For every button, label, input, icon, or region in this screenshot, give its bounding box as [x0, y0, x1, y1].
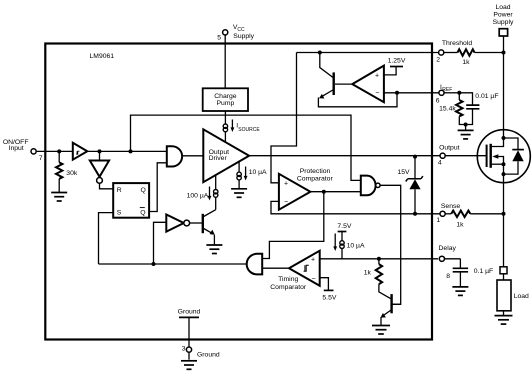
- svg-text:Output: Output: [439, 144, 460, 151]
- svg-text:30k: 30k: [66, 170, 78, 177]
- svg-text:0.1 µF: 0.1 µF: [474, 268, 493, 275]
- transistor Q3: [390, 294, 392, 313]
- current source 100uA: [215, 175, 217, 190]
- svg-text:5: 5: [217, 35, 221, 42]
- svg-text:S: S: [117, 210, 122, 217]
- svg-text:Comparator: Comparator: [297, 176, 334, 183]
- svg-text:4: 4: [438, 160, 442, 167]
- svg-text:Pump: Pump: [217, 100, 235, 107]
- svg-text:1k: 1k: [456, 222, 464, 229]
- pin 3 terminal: [186, 347, 191, 352]
- wire mosfet source down: [503, 164, 505, 174]
- svg-text:LM9061: LM9061: [90, 53, 115, 60]
- arrow 100uA: [209, 187, 211, 197]
- pin 7 ON/OFF Input terminal: [31, 149, 36, 154]
- svg-text:Load: Load: [514, 293, 529, 300]
- resistor 15.4k: [458, 93, 460, 100]
- wire inverter to Q1 base: [190, 222, 202, 224]
- svg-text:Input: Input: [9, 145, 24, 152]
- wire timing minus to 5.5V: [320, 278, 329, 291]
- svg-text:Ground: Ground: [178, 308, 201, 315]
- wire 1k to Q3 base: [379, 284, 391, 299]
- wire pin7 to schmitt buffer: [36, 150, 73, 152]
- wire tap to inverter U3: [154, 222, 167, 264]
- node op-amp minus junction: [395, 91, 399, 95]
- wire 30k to ground: [58, 179, 60, 193]
- arrow 10uA timing: [334, 234, 336, 248]
- latch RS flip-flop: [113, 183, 149, 218]
- comparator timing: [289, 251, 320, 286]
- svg-text:Threshold: Threshold: [442, 40, 472, 47]
- transistor Q1: [202, 214, 204, 233]
- ground under Q3: [372, 326, 390, 335]
- IC outline box LM9061: [45, 44, 432, 340]
- svg-text:+: +: [311, 257, 315, 264]
- svg-text:1: 1: [436, 217, 440, 224]
- schmitt buffer A1: [73, 143, 88, 160]
- wire ON/OFF signal rail to NAND gate: [131, 115, 361, 180]
- wire protection output to NAND: [310, 191, 360, 193]
- svg-text:7.5V: 7.5V: [337, 223, 351, 230]
- transistor Q2 PNP: [333, 72, 335, 95]
- node bottom rail tap: [152, 262, 156, 266]
- capacitor 0.1uF: [445, 259, 461, 269]
- svg-text:Ground: Ground: [197, 351, 220, 358]
- node mosfet source stub: [502, 162, 506, 166]
- svg-text:+: +: [284, 181, 288, 188]
- current source 10uA (driver): [238, 162, 240, 173]
- node rail tap: [129, 149, 133, 153]
- svg-text:1k: 1k: [462, 59, 470, 66]
- svg-text:10 µA: 10 µA: [347, 243, 365, 250]
- pin 1 Sense terminal: [440, 211, 445, 216]
- ground under 10uA: [231, 189, 247, 198]
- svg-text:7: 7: [39, 155, 43, 162]
- node iref junction: [457, 91, 461, 95]
- wire protection output to timing AND: [262, 192, 324, 259]
- capacitor 0.01uF: [459, 93, 472, 105]
- svg-text:Q: Q: [141, 187, 146, 194]
- svg-text:−: −: [311, 276, 315, 283]
- ground under pin 3: [181, 361, 197, 370]
- svg-text:1.25V: 1.25V: [388, 57, 406, 64]
- arrow Isource: [231, 120, 233, 129]
- node delay 1k junction: [377, 257, 381, 261]
- wire S input from bottom rail: [99, 213, 114, 264]
- svg-text:−: −: [284, 199, 288, 206]
- svg-text:6: 6: [436, 98, 440, 105]
- node mosfet source: [502, 172, 506, 176]
- svg-text:SOURCE: SOURCE: [238, 127, 260, 133]
- inverter U3: [166, 215, 184, 232]
- wire driver output to pin 4: [249, 155, 440, 157]
- svg-text:CC: CC: [237, 27, 245, 33]
- svg-text:Charge: Charge: [214, 93, 237, 100]
- and gate G3 (timing, points left): [247, 254, 263, 275]
- pin 5 VCC terminal: [223, 30, 228, 35]
- charge pump block: [203, 88, 248, 111]
- and gate G1: [167, 146, 182, 166]
- wire pin 4 to gate: [445, 155, 486, 157]
- wire VCC to charge pump: [224, 35, 226, 88]
- svg-text:0.01 µF: 0.01 µF: [475, 93, 498, 100]
- node 30k tap: [57, 149, 61, 153]
- node inverter tap: [98, 149, 102, 153]
- svg-text:Supply: Supply: [233, 33, 254, 40]
- wire schmitt buffer output to AND gate: [87, 150, 167, 152]
- ground under Q1: [206, 245, 222, 254]
- svg-text:5.5V: 5.5V: [322, 294, 336, 301]
- power MOSFET with body diode: [477, 130, 530, 183]
- node load supply junction: [502, 51, 506, 55]
- svg-text:2: 2: [436, 57, 440, 64]
- terminal square load top: [500, 267, 507, 274]
- resistor 1k threshold: [444, 52, 458, 54]
- wire load supply to MOSFET drain: [503, 36, 505, 138]
- wire op-amp minus to pin 6: [384, 92, 439, 94]
- svg-text:Delay: Delay: [439, 245, 457, 252]
- current source ISOURCE: [223, 124, 227, 132]
- op-amp output driver: [203, 129, 249, 182]
- svg-text:R: R: [117, 187, 122, 194]
- node mosfet drain: [502, 136, 506, 140]
- svg-text:Load: Load: [495, 4, 510, 11]
- svg-text:Timing: Timing: [278, 276, 298, 283]
- wire threshold to protection comparator +: [271, 53, 297, 183]
- svg-text:−: −: [375, 90, 379, 97]
- resistor 1k (delay): [378, 259, 380, 264]
- nand gate G2: [361, 176, 376, 196]
- node cap ground junction: [464, 123, 468, 127]
- op-amp U4 1.25V reference: [352, 66, 384, 103]
- threshold rail: [297, 52, 439, 54]
- arrow 10uA: [245, 167, 247, 177]
- node sense load junction: [502, 212, 506, 216]
- ground under 15.4k: [458, 130, 474, 139]
- svg-text:10 µA: 10 µA: [249, 169, 267, 176]
- node protection output: [322, 190, 326, 194]
- pin 4 Output terminal: [440, 153, 445, 158]
- svg-text:Protection: Protection: [300, 168, 331, 175]
- wire AND output to driver: [182, 155, 203, 157]
- delay rail: [320, 258, 438, 260]
- svg-text:Comparator: Comparator: [270, 284, 307, 291]
- resistor 1k sense: [445, 213, 451, 215]
- pin 6 IREF terminal: [439, 90, 444, 95]
- body diode: [504, 138, 519, 150]
- wire inverter to R input: [100, 183, 114, 189]
- node PNP collector junction: [318, 51, 322, 55]
- load resistor block: [503, 274, 505, 280]
- svg-text:3: 3: [182, 346, 186, 353]
- wire G3 input to timing comparator output: [262, 267, 289, 269]
- wire bottom rail: [99, 263, 247, 265]
- svg-text:Driver: Driver: [209, 155, 228, 162]
- svg-text:Q: Q: [140, 210, 145, 217]
- ground under 30k: [51, 193, 67, 202]
- svg-text:Sense: Sense: [441, 203, 460, 210]
- pin 8 Delay terminal: [439, 256, 444, 261]
- wire op-amp + to 1.25V: [384, 67, 396, 75]
- resistor 30k: [58, 151, 60, 162]
- ground under load: [495, 316, 513, 325]
- svg-text:15V: 15V: [397, 169, 410, 176]
- wire NAND output to Q3 collector: [380, 185, 401, 304]
- pin 2 Threshold terminal: [439, 50, 444, 55]
- svg-text:Supply: Supply: [493, 19, 514, 26]
- wire to inverter U2: [99, 151, 101, 160]
- svg-text:1k: 1k: [364, 270, 372, 277]
- wire charge pump to Isource: [224, 111, 226, 124]
- wire Qbar to AND gate input: [149, 163, 167, 212]
- wire protection minus loop to sense rail: [271, 201, 440, 213]
- ground under 0.1uF: [452, 287, 468, 296]
- svg-text:15.4k: 15.4k: [439, 106, 456, 113]
- inverter U2 (points down): [90, 161, 109, 177]
- svg-text:100 µA: 100 µA: [187, 192, 209, 199]
- wire op-amp out to Q2 base: [335, 83, 352, 85]
- svg-text:+: +: [375, 72, 379, 79]
- svg-text:8: 8: [446, 273, 450, 280]
- svg-text:REF: REF: [442, 87, 452, 93]
- comparator protection: [279, 174, 311, 210]
- svg-text:Power: Power: [493, 12, 513, 19]
